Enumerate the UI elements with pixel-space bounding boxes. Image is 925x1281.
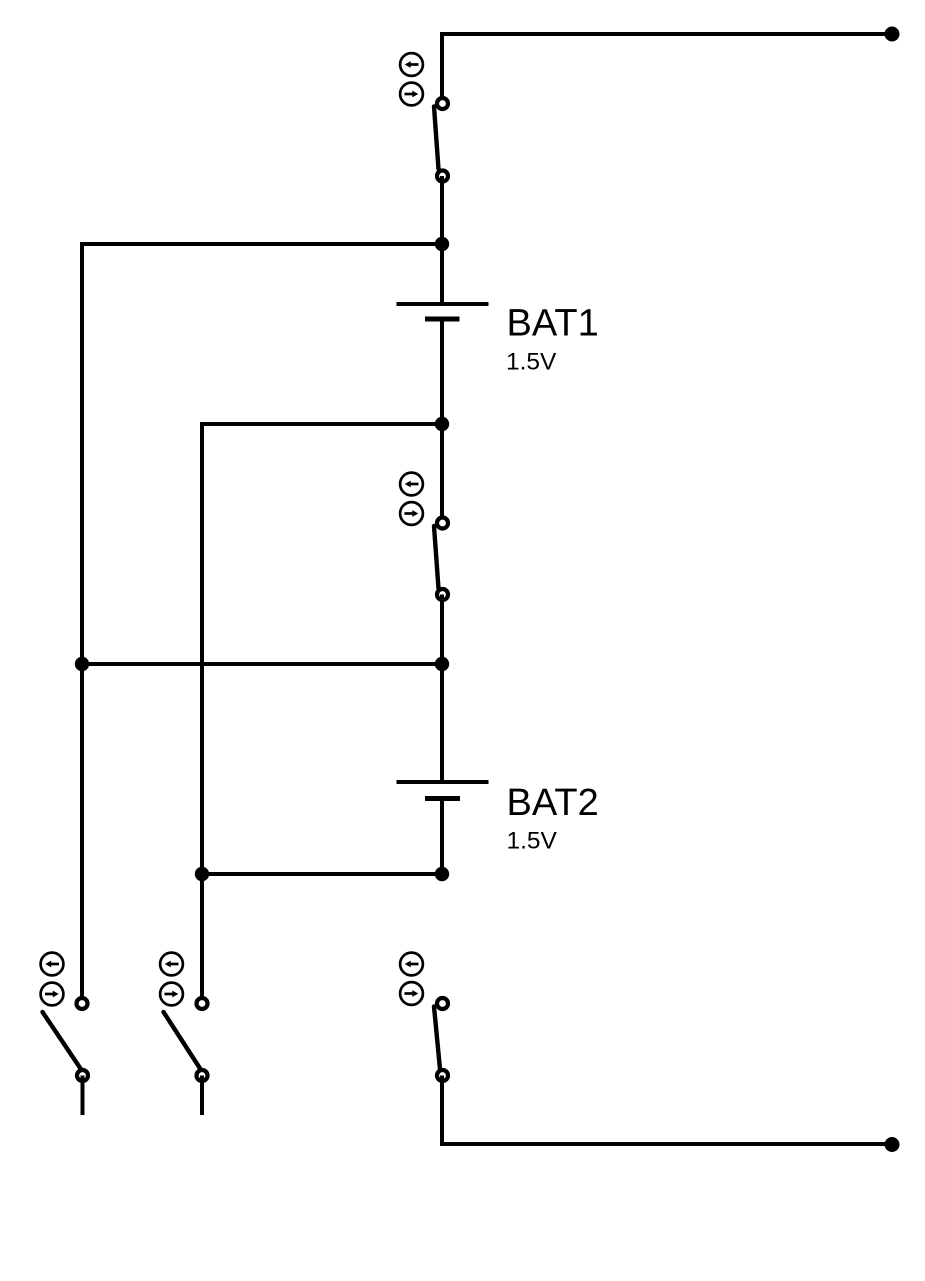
switch SW5 terminal 1 xyxy=(437,998,448,1009)
switch SW2 blade xyxy=(434,526,439,589)
wire mid column xyxy=(200,422,204,874)
switch SW2 terminal 1 xyxy=(437,518,448,529)
wire left column lower xyxy=(80,664,84,999)
wire SW3 open stub xyxy=(81,1076,85,1116)
switch SW5 blade xyxy=(434,1007,440,1070)
wire node C to node D xyxy=(82,662,442,666)
switch SW3 terminal 1 xyxy=(77,998,88,1009)
svg-text:1.5V: 1.5V xyxy=(507,828,558,855)
wire node E to node F xyxy=(202,872,442,876)
switch SW2 flip button up xyxy=(400,473,423,496)
switch SW5 flip button up xyxy=(400,953,423,976)
switch SW4 flip button down xyxy=(160,983,183,1006)
node bottom-right output terminal dot xyxy=(885,1137,900,1152)
switch SW3 flip button down xyxy=(41,983,64,1006)
switch SW4 terminal 1 xyxy=(197,998,208,1009)
switch SW3 flip button up xyxy=(41,953,64,976)
switch SW2 terminal 2 xyxy=(437,589,448,600)
switch SW1 blade xyxy=(434,107,439,170)
node B junction xyxy=(435,417,449,431)
switch SW1 flip button up xyxy=(400,53,423,76)
switch SW1 terminal 2 xyxy=(437,171,448,182)
wire SW2 to node C xyxy=(440,595,444,665)
wire left column upper xyxy=(80,242,84,664)
wire SW4 open stub xyxy=(200,1076,204,1116)
switch SW3 terminal 2 xyxy=(77,1070,88,1081)
node D junction xyxy=(75,657,89,671)
switch SW1 flip button down xyxy=(400,83,423,106)
wire node C to BAT2 xyxy=(440,664,444,782)
node F junction xyxy=(195,867,209,881)
battery BAT2 xyxy=(397,782,489,799)
wire BAT1 to node B xyxy=(440,319,444,424)
switch SW1 terminal 1 xyxy=(437,98,448,109)
wire node F to SW4 xyxy=(200,874,204,999)
switch SW4 flip button up xyxy=(160,953,183,976)
wire SW1 to node A xyxy=(440,176,444,244)
wire node A to BAT1 xyxy=(440,244,444,304)
wire node B to SW2 xyxy=(440,424,444,519)
svg-text:1.5V: 1.5V xyxy=(506,349,557,376)
switch SW5 flip button down xyxy=(400,982,423,1005)
wire bottom output run xyxy=(442,1076,892,1145)
switch SW5 terminal 2 xyxy=(437,1070,448,1081)
battery BAT1 xyxy=(397,304,489,319)
node top-right output terminal dot xyxy=(885,27,900,42)
switch SW2 flip button down xyxy=(400,502,423,525)
wire node B to mid column xyxy=(202,422,442,426)
switch SW3 blade (open) xyxy=(43,1012,82,1070)
node E junction xyxy=(435,867,449,881)
svg-text:BAT1: BAT1 xyxy=(507,303,599,345)
switch SW4 terminal 2 xyxy=(197,1070,208,1081)
wire BAT2 to node E xyxy=(440,799,444,875)
node A junction xyxy=(435,237,449,251)
wire top output run xyxy=(442,34,892,97)
wire node A to left column xyxy=(82,242,442,246)
node C junction xyxy=(435,657,449,671)
svg-text:BAT2: BAT2 xyxy=(507,782,599,824)
switch SW4 blade (open) xyxy=(164,1012,202,1070)
